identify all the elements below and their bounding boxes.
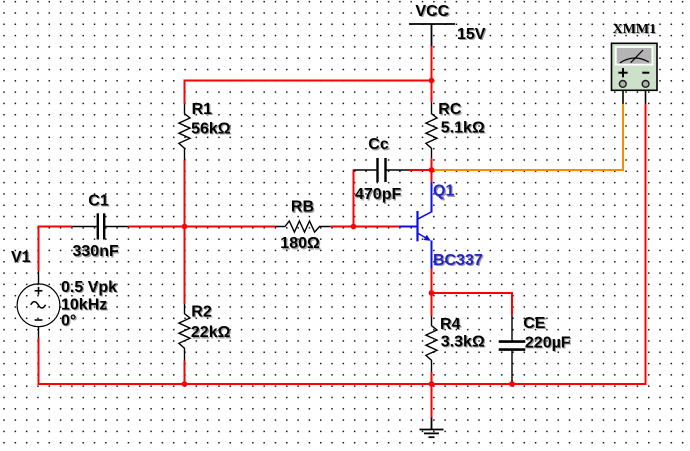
svg-text:R4: R4 bbox=[440, 316, 461, 333]
resistor R1 bbox=[179, 104, 190, 160]
wire: orange measurement wire from collector junction to XMM1 + terminal bbox=[433, 104, 624, 170]
junction at base row / Cc branch bbox=[351, 224, 357, 230]
svg-text:0°: 0° bbox=[61, 312, 76, 329]
junction at emitter node (R4 / CE) bbox=[429, 290, 435, 296]
svg-text:Q1: Q1 bbox=[433, 183, 454, 200]
label CE bbox=[523, 315, 547, 333]
wire: base row from C1 right lead to RB left lead bbox=[128, 226, 275, 228]
wire: R4 bottom to bottom rail bbox=[431, 372, 433, 384]
label C1 bbox=[88, 192, 110, 210]
label Q1 bbox=[433, 183, 456, 201]
label 15V (value of VCC) bbox=[457, 26, 487, 44]
junction at base row / R1-R2 column bbox=[182, 224, 188, 230]
svg-text:R2: R2 bbox=[191, 303, 212, 320]
wire: CE top vertical segment bbox=[511, 292, 513, 315]
wire: RC bottom to collector junction and collector stub bbox=[431, 158, 433, 182]
label 22kΩ (value of R2) bbox=[191, 324, 232, 342]
label 0.5 Vpk (value of V1) bbox=[61, 279, 118, 297]
svg-text:BC337: BC337 bbox=[433, 252, 483, 269]
svg-text:VCC: VCC bbox=[415, 3, 449, 20]
wire: XMM1 negative terminal column down to bottom rail bbox=[645, 104, 647, 385]
label 5.1kΩ (value of RC) bbox=[441, 119, 486, 137]
transistor Q1 (NPN BC337) bbox=[399, 182, 432, 269]
svg-text:5.1kΩ: 5.1kΩ bbox=[441, 119, 485, 136]
capacitor CE (horizontal plates) bbox=[499, 315, 526, 382]
svg-text:R1: R1 bbox=[192, 101, 213, 118]
junction at bottom rail / ground branch bbox=[429, 381, 435, 387]
wire: R1 top lead red segment bbox=[184, 80, 186, 105]
junction at VCC rail / R1 branch bbox=[429, 78, 435, 84]
svg-text:56kΩ: 56kΩ bbox=[191, 120, 231, 137]
label 56kΩ (value of R1) bbox=[191, 120, 232, 138]
wire: bottom ground rail bbox=[39, 383, 647, 385]
ground bbox=[420, 418, 444, 438]
wire: base row from V1 corner to C1 left lead bbox=[39, 226, 73, 228]
capacitor Cc bbox=[354, 158, 410, 182]
label 470pF (value of Cc) bbox=[355, 186, 403, 204]
label RB bbox=[291, 199, 315, 217]
wire: top horizontal rail from R1 top to VCC column bbox=[185, 80, 432, 82]
label R4 bbox=[440, 316, 462, 334]
instrument XMM1 (multimeter) bbox=[612, 43, 658, 104]
resistor R4 bbox=[426, 316, 437, 372]
wire: Cc right lead to collector junction bbox=[409, 169, 432, 171]
svg-text:RB: RB bbox=[291, 199, 314, 216]
label Cc bbox=[368, 136, 390, 154]
svg-text:0.5 Vpk: 0.5 Vpk bbox=[61, 279, 117, 296]
svg-text:3.3kΩ: 3.3kΩ bbox=[441, 333, 485, 350]
svg-text:Cc: Cc bbox=[368, 136, 389, 153]
label R1 bbox=[192, 101, 214, 119]
label XMM1 bbox=[613, 22, 658, 38]
svg-text:22kΩ: 22kΩ bbox=[191, 324, 231, 341]
source V1 (sine voltage source) bbox=[17, 271, 60, 338]
label V1 bbox=[11, 249, 32, 267]
wire: V1 bottom column to ground rail bbox=[38, 338, 40, 386]
wire: VCC column red (down from VCC stub through top junction to RC top) bbox=[431, 46, 433, 103]
wire: emitter red segment down to emitter junction and R4 top bbox=[431, 269, 433, 317]
svg-text:180Ω: 180Ω bbox=[280, 235, 320, 252]
svg-text:470pF: 470pF bbox=[355, 186, 401, 203]
wire: R2 top segment from base-row junction bbox=[184, 227, 186, 305]
junction at bottom rail / R2 bbox=[182, 381, 188, 387]
resistor RB (horizontal) bbox=[275, 221, 330, 232]
label 0° (phase of V1) bbox=[61, 312, 77, 330]
junction at collector node (RC / Cc / XMM1) bbox=[429, 167, 435, 173]
wire: emitter node horizontal to CE column bbox=[431, 292, 513, 294]
power symbol VCC bbox=[409, 24, 455, 46]
label 180Ω (value of RB) bbox=[280, 235, 321, 253]
wire: ground branch below rail bbox=[431, 384, 433, 418]
svg-text:C1: C1 bbox=[88, 192, 109, 209]
svg-text:RC: RC bbox=[438, 101, 462, 118]
junction at bottom rail / CE bbox=[509, 381, 515, 387]
svg-text:V1: V1 bbox=[11, 249, 31, 266]
label 220µF (value of CE) bbox=[525, 334, 572, 352]
svg-text:CE: CE bbox=[523, 315, 546, 332]
wire: R2 bottom segment to bottom rail bbox=[184, 361, 186, 385]
label VCC bbox=[415, 3, 450, 21]
wire: V1 top column bbox=[38, 226, 40, 272]
label R2 bbox=[191, 303, 213, 321]
label 10kHz (value of V1) bbox=[61, 297, 108, 315]
wire: CE bottom red stub bbox=[511, 381, 513, 385]
resistor RC bbox=[426, 102, 437, 158]
label RC bbox=[438, 101, 463, 119]
label 3.3kΩ (value of R4) bbox=[441, 333, 486, 351]
wire: Cc left vertical drop to base row junction bbox=[353, 170, 355, 228]
label 330nF (value of C1) bbox=[73, 243, 121, 261]
svg-text:XMM1: XMM1 bbox=[613, 22, 657, 37]
wire: base row from RB right lead to Q1 base (red part) bbox=[330, 226, 399, 228]
svg-text:15V: 15V bbox=[457, 26, 486, 43]
label BC337 (value of Q1) bbox=[433, 252, 484, 270]
svg-text:220µF: 220µF bbox=[525, 334, 571, 351]
svg-text:330nF: 330nF bbox=[73, 243, 119, 260]
svg-text:10kHz: 10kHz bbox=[61, 297, 107, 314]
capacitor C1 bbox=[72, 213, 128, 239]
wire: R1 bottom to base-row junction bbox=[184, 160, 186, 228]
resistor R2 bbox=[179, 304, 190, 361]
